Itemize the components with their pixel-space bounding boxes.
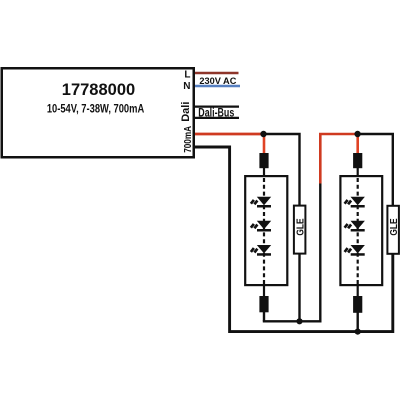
svg-text:Dali: Dali <box>180 102 192 122</box>
svg-text:10-54V, 7-38W, 700mA: 10-54V, 7-38W, 700mA <box>47 102 145 115</box>
svg-text:17788000: 17788000 <box>62 81 135 99</box>
svg-text:N: N <box>183 81 190 92</box>
svg-text:Dali-Bus: Dali-Bus <box>198 106 234 120</box>
svg-text:700mA: 700mA <box>181 126 193 153</box>
svg-text:GLE: GLE <box>295 218 307 235</box>
svg-text:GLE: GLE <box>388 218 400 235</box>
svg-text:L: L <box>184 69 190 80</box>
